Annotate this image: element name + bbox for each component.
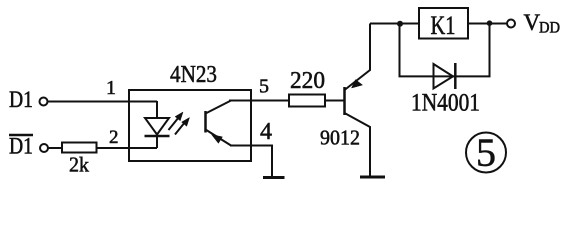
node VDD terminal bbox=[507, 10, 560, 37]
svg-text:5: 5 bbox=[476, 130, 496, 175]
svg-text:220: 220 bbox=[290, 68, 325, 94]
wire resistor to transistor base bbox=[325, 100, 344, 102]
resistor 220 bbox=[289, 68, 325, 107]
node junction dot right bbox=[487, 20, 493, 26]
wire pin5 to resistor 220 bbox=[229, 100, 289, 102]
wire resistor to LED cathode (pin 2) bbox=[97, 147, 157, 149]
svg-text:4: 4 bbox=[260, 119, 272, 145]
svg-text:9012: 9012 bbox=[320, 126, 360, 150]
phototransistor inside optocoupler bbox=[206, 101, 232, 146]
wire D1 to LED anode (pin 1) bbox=[48, 101, 158, 103]
node D1 input terminal bbox=[9, 87, 48, 112]
optocoupler U1 4N23 box bbox=[129, 62, 251, 161]
transistor Q1 9012 bbox=[320, 24, 370, 177]
svg-text:4N23: 4N23 bbox=[170, 62, 217, 88]
node D1-bar input terminal bbox=[9, 134, 48, 159]
diode D 1N4001 branch bbox=[400, 24, 490, 117]
svg-text:2k: 2k bbox=[69, 153, 89, 177]
wire emitter rail to K1 bbox=[370, 23, 418, 25]
svg-text:V: V bbox=[524, 10, 541, 35]
svg-text:2: 2 bbox=[109, 127, 119, 148]
resistor R 2k bbox=[62, 143, 97, 177]
svg-text:1: 1 bbox=[106, 77, 116, 99]
ground (9012 collector) bbox=[360, 176, 385, 179]
node junction dot left bbox=[397, 21, 403, 27]
wire K1 to VDD terminal bbox=[468, 23, 507, 25]
svg-text:DD: DD bbox=[539, 20, 560, 37]
svg-text:D1: D1 bbox=[9, 87, 33, 112]
wire pin4 to ground bbox=[230, 146, 272, 177]
svg-text:1N4001: 1N4001 bbox=[411, 90, 480, 117]
wire D1-bar to resistor bbox=[48, 147, 62, 149]
LED inside optocoupler bbox=[145, 101, 170, 148]
svg-text:K1: K1 bbox=[431, 10, 456, 40]
svg-text:D1: D1 bbox=[9, 134, 33, 159]
svg-text:5: 5 bbox=[259, 76, 269, 98]
ground (pin 4) bbox=[263, 176, 285, 179]
relay K1 bbox=[419, 8, 468, 40]
light arrows bbox=[169, 112, 190, 135]
figure number 5 bbox=[466, 130, 506, 175]
